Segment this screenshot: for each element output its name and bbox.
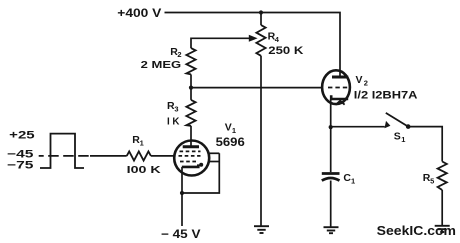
V1 plate bbox=[183, 145, 199, 148]
V1 cathode bbox=[182, 164, 198, 167]
V1 grid row 3 (shield) bbox=[180, 161, 198, 163]
wire V2 cathode lead bbox=[330, 99, 332, 127]
V1 grid row 1 (shield) bbox=[180, 150, 201, 152]
junction V2 cathode node bbox=[329, 125, 333, 129]
input dashed -45 level line bbox=[39, 155, 90, 157]
wire cathode node down to C1 bbox=[330, 127, 332, 172]
wire junction to V2 grid bbox=[191, 87, 322, 89]
svg-text:I/2 I2BH7A: I/2 I2BH7A bbox=[354, 90, 418, 102]
switch S1 blade bbox=[386, 113, 408, 127]
wire top rail from +400V label to V2 plate corner bbox=[165, 13, 341, 71]
capacitor C1 top plate bbox=[322, 172, 340, 175]
svg-text:+400 V: +400 V bbox=[117, 6, 161, 20]
wire input to R1 bbox=[90, 155, 127, 157]
wire V1 shield grid bottom tie bbox=[208, 161, 219, 163]
V2 cathode bbox=[331, 95, 348, 99]
wire R3 bottom to V1 plate bbox=[190, 126, 192, 147]
ground below R4 bbox=[254, 226, 269, 233]
wire C1 bottom lead bbox=[330, 181, 332, 227]
svg-text:I00 K: I00 K bbox=[127, 164, 162, 176]
wire R1 to V1 grid bbox=[151, 155, 175, 157]
capacitor C1 bottom plate bbox=[322, 178, 340, 181]
svg-text:5: 5 bbox=[430, 176, 434, 185]
svg-text:2: 2 bbox=[177, 50, 181, 59]
junction V1 cathode node bbox=[180, 191, 184, 195]
svg-text:1: 1 bbox=[401, 135, 405, 144]
wire to -45 V supply bbox=[181, 193, 183, 226]
svg-text:1: 1 bbox=[351, 176, 355, 185]
V1 grid row 2 (control) bbox=[179, 155, 201, 157]
wire V1 shield grid top tie bbox=[208, 152, 220, 154]
V2 heater bbox=[336, 101, 345, 105]
svg-text:S: S bbox=[394, 130, 401, 142]
switch S1 pivot bbox=[406, 124, 411, 129]
svg-text:−75: −75 bbox=[7, 160, 33, 172]
wire R2 bottom to R3 top bbox=[190, 74, 192, 100]
wire R4 wiper arm from R2 top bbox=[191, 38, 251, 48]
resistor R1 bbox=[127, 151, 151, 160]
wire V2 plate lead bbox=[339, 71, 341, 77]
wire R4 top lead bbox=[260, 13, 262, 26]
input pulse waveform bbox=[40, 134, 84, 168]
svg-text:V: V bbox=[356, 74, 363, 86]
ground below C1 bbox=[324, 227, 339, 233]
tube V1 envelope bbox=[174, 141, 209, 176]
wire R4 bottom lead to ground bbox=[260, 56, 262, 226]
V2 plate bbox=[332, 76, 348, 79]
svg-text:5696: 5696 bbox=[216, 137, 245, 149]
V2 grid bbox=[328, 87, 349, 89]
svg-text:250 K: 250 K bbox=[268, 45, 303, 57]
svg-text:+25: +25 bbox=[9, 130, 35, 142]
svg-text:I K: I K bbox=[167, 115, 180, 127]
wire cathode node to switch contact bbox=[331, 126, 385, 128]
svg-text:3: 3 bbox=[174, 105, 178, 114]
resistor R2 bbox=[186, 48, 195, 74]
svg-text:V: V bbox=[225, 122, 232, 134]
svg-text:1: 1 bbox=[232, 126, 236, 135]
wire switch to R5 bbox=[408, 127, 442, 162]
resistor R5 bbox=[438, 162, 447, 191]
svg-text:SeekIC.com: SeekIC.com bbox=[377, 223, 456, 238]
wire shield tie down to cathode node bbox=[182, 153, 219, 193]
V1 gas-fill dot bbox=[199, 163, 203, 167]
svg-text:1: 1 bbox=[140, 139, 144, 148]
junction R2/R3 node bbox=[189, 86, 193, 90]
tube V2 envelope bbox=[322, 70, 350, 104]
wire R5 bottom lead bbox=[441, 190, 443, 225]
junction top rail to R4 bbox=[259, 10, 263, 14]
switch S1 fixed contact bbox=[385, 121, 391, 128]
svg-text:2: 2 bbox=[364, 78, 368, 87]
svg-text:2 MEG: 2 MEG bbox=[141, 60, 182, 71]
svg-text:4: 4 bbox=[275, 35, 280, 44]
wire V1 cathode lead bbox=[181, 167, 183, 193]
resistor R3 bbox=[186, 100, 195, 126]
potentiometer R4 bbox=[256, 25, 265, 56]
svg-text:− 45 V: − 45 V bbox=[161, 227, 201, 241]
ground below R5 bbox=[435, 226, 450, 232]
